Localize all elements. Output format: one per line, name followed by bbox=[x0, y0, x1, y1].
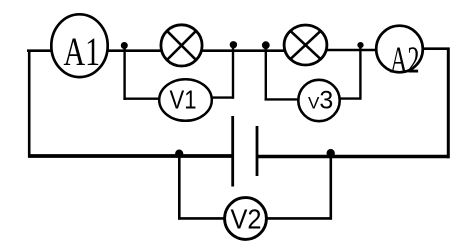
svg-text:V2: V2 bbox=[231, 204, 262, 235]
svg-text:A1: A1 bbox=[64, 29, 101, 74]
wire: left rail vertical bbox=[28, 50, 31, 158]
voltmeter V2 bbox=[225, 198, 267, 240]
wire: V2 loop right horizontal bbox=[265, 217, 332, 220]
wire: A1 to lamp L1 bbox=[108, 49, 161, 52]
wire: V3 right branch vertical bbox=[359, 46, 361, 100]
wire: V1 right branch horizontal bbox=[212, 96, 234, 98]
voltmeter V1 bbox=[159, 79, 212, 121]
wire: V3 left branch horizontal bbox=[265, 98, 300, 100]
wire: lamp L1 to lamp L2 bbox=[202, 49, 284, 52]
node: junction dot on middle wire right (to V2) bbox=[327, 149, 335, 157]
wire: V1 right branch vertical bbox=[232, 47, 234, 99]
node: junction dot on middle wire left (to V2) bbox=[175, 150, 183, 158]
node: junction dot at V3 left / top wire bbox=[262, 41, 270, 49]
battery cell right plate (short) bbox=[256, 126, 259, 176]
wire: V3 right branch horizontal bbox=[339, 97, 362, 99]
ammeter A1 bbox=[51, 14, 107, 77]
wire: V2 loop left vertical bbox=[178, 156, 181, 220]
svg-text:V1: V1 bbox=[170, 85, 197, 115]
wire: V1 left branch vertical bbox=[123, 46, 125, 100]
wire: middle horizontal left (to battery +) bbox=[28, 154, 233, 158]
lamp L2 bbox=[284, 25, 327, 65]
node: junction dot at V1 right / top wire bbox=[230, 41, 237, 48]
lamp L1 bbox=[161, 25, 202, 66]
wire: V2 loop left horizontal bbox=[178, 217, 226, 220]
wire: right rail vertical bbox=[447, 48, 450, 159]
wire: middle horizontal right (battery - to right rail) bbox=[257, 155, 450, 158]
node: junction dot at V3 right / top wire bbox=[357, 42, 363, 48]
voltmeter V3 bbox=[298, 80, 339, 121]
wire: top-left from left rail to ammeter A1 bbox=[27, 49, 52, 52]
wire: V3 left branch vertical bbox=[265, 46, 267, 101]
wire: A2 to right rail bbox=[423, 47, 450, 50]
node: junction dot left of lamp L1 bbox=[121, 42, 128, 49]
battery cell left plate (long) bbox=[231, 116, 234, 187]
svg-text:A2: A2 bbox=[390, 40, 420, 82]
ammeter A2 bbox=[376, 26, 423, 82]
wire: lamp L2 to ammeter A2 bbox=[327, 49, 377, 52]
wire: V2 loop right vertical bbox=[329, 154, 332, 220]
wire: V1 left branch horizontal bbox=[123, 97, 159, 99]
